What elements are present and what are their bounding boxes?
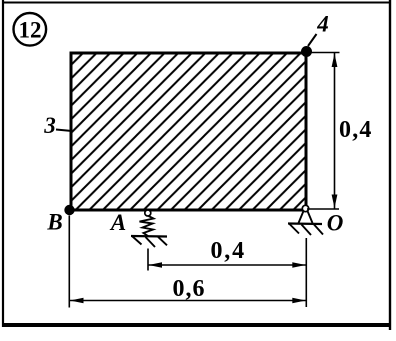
arrowhead right 0,6	[292, 298, 306, 304]
arrowhead up	[332, 54, 338, 68]
arrowhead right 0,4	[292, 262, 306, 268]
vertical dimension line 0,4	[334, 53, 336, 209]
svg-text:O: O	[327, 211, 344, 236]
problem number circle 12	[14, 13, 47, 46]
arrowhead left 0,6	[70, 298, 84, 304]
pin support at O : pin circle	[302, 205, 308, 211]
spring ground hatch ticks	[133, 237, 142, 245]
node 4 corner dot	[301, 46, 312, 57]
svg-text:0,6: 0,6	[173, 276, 206, 302]
svg-text:4: 4	[316, 12, 329, 37]
plate (hatched rectangle)	[71, 53, 306, 210]
tick for label 3	[56, 130, 72, 132]
frame border top	[2, 2, 390, 4]
svg-text:3: 3	[43, 113, 56, 138]
extension line top right	[307, 52, 340, 54]
extension line below B	[68, 216, 70, 308]
frame border right	[389, 0, 391, 330]
arrowhead down	[332, 195, 338, 209]
extension line bottom right of plate	[307, 208, 339, 210]
spring zigzag	[140, 216, 154, 236]
pin triangle	[299, 211, 313, 223]
spring ground line	[131, 235, 167, 238]
svg-text:12: 12	[19, 18, 42, 43]
svg-text:0,4: 0,4	[211, 238, 246, 264]
frame border left	[2, 0, 4, 327]
svg-text:B: B	[46, 210, 62, 235]
horizontal dimension line 0,4	[148, 264, 306, 266]
svg-text:0,4: 0,4	[339, 117, 373, 143]
pin ground hatch ticks	[290, 224, 300, 234]
frame border bottom	[2, 323, 391, 327]
spring support at A : attachment circle	[145, 210, 151, 216]
pin ground line	[288, 222, 322, 225]
svg-text:A: A	[109, 210, 126, 235]
horizontal dimension line 0,6	[70, 300, 307, 302]
arrowhead left 0,4	[149, 262, 163, 268]
leader line to label 4	[308, 34, 317, 46]
node B corner dot	[64, 205, 74, 215]
extension line below O	[305, 238, 307, 307]
extension line below A	[147, 249, 149, 271]
